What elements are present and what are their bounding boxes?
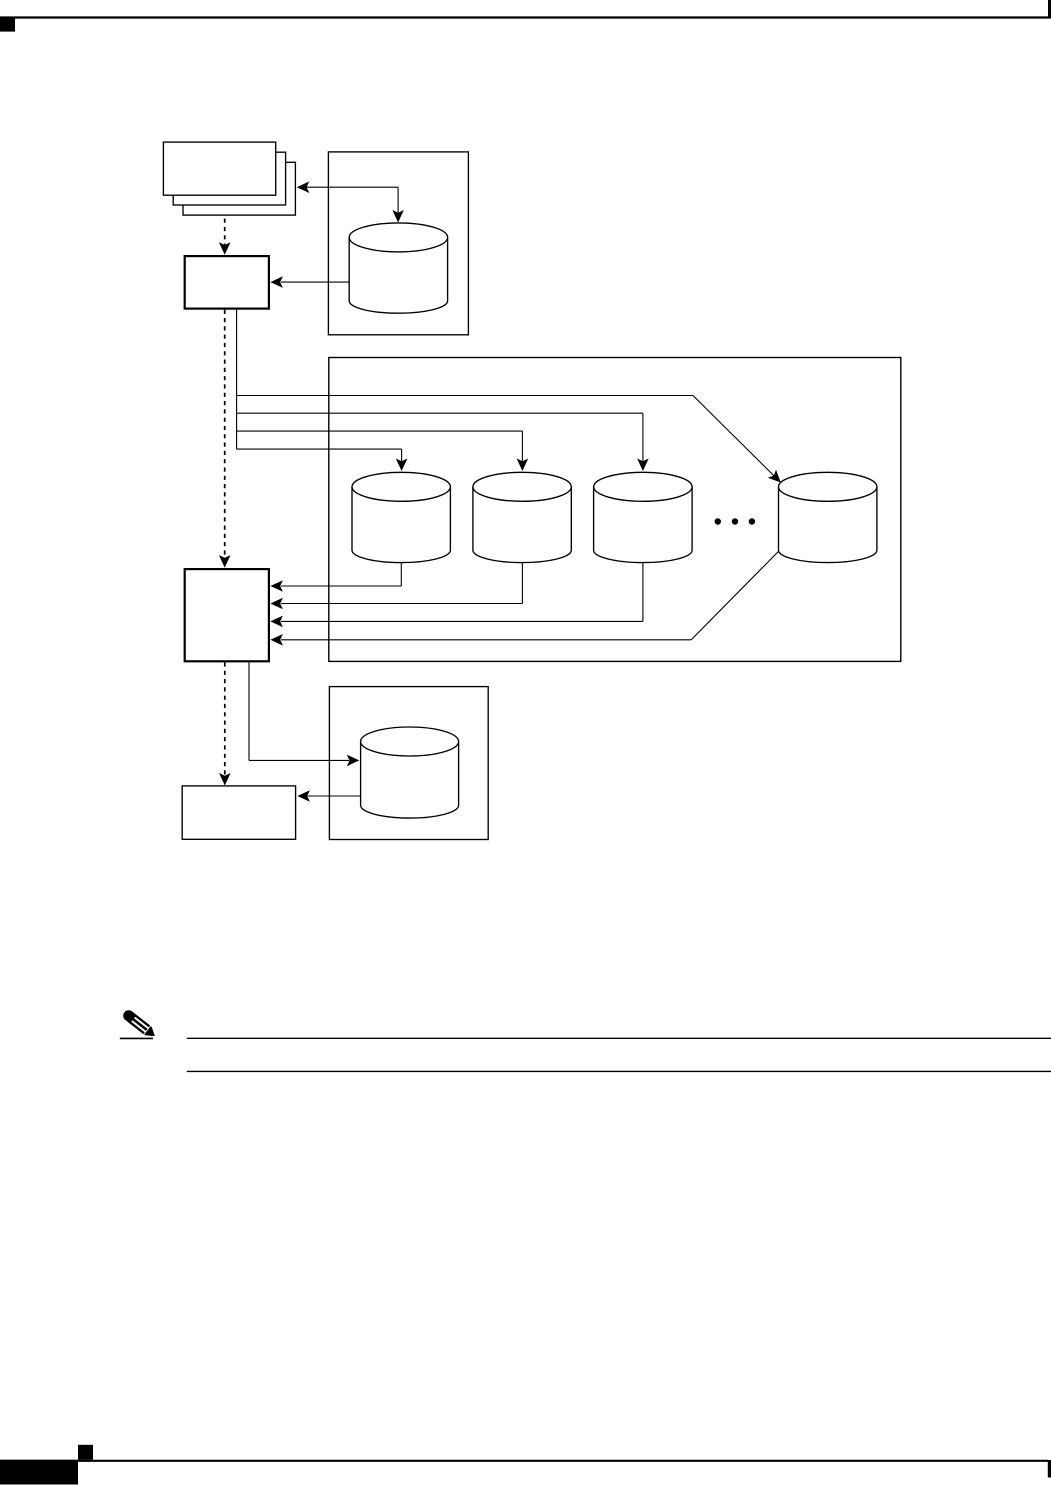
note top rule	[187, 1037, 1051, 1039]
document stack back sheet	[183, 162, 295, 215]
process box 2 (bold)	[185, 569, 269, 661]
wire: bottom cylinder to process box 3	[308, 795, 361, 797]
wire: cylinder 1 to process box 2	[400, 563, 402, 586]
wire: process box 2 down/right into bottom cylinder	[248, 662, 250, 760]
wire: cylinder 3 to process box 2	[642, 563, 644, 622]
arrowhead into top cylinder	[392, 210, 404, 223]
dashed wire: document stack down to process box 1	[224, 219, 226, 246]
wire: top cylinder to process box 1	[281, 281, 349, 283]
wire D: trunk to cylinder 1	[237, 448, 402, 450]
arrowhead into process box 3 right side	[297, 790, 310, 802]
arrowhead into cylinder 3 top	[637, 459, 649, 472]
process box 1 (bold)	[185, 256, 269, 309]
footer page-number block	[0, 1460, 78, 1485]
arrowhead into process box 2 top	[219, 555, 231, 568]
arrowhead into cylinder 1 top	[396, 459, 408, 472]
container box (bottom database group)	[329, 687, 488, 840]
note label underline	[120, 1037, 153, 1039]
header rule	[0, 16, 1048, 18]
header right corner tick	[1048, 0, 1051, 19]
wire: trunk line from process box 1 bottom	[236, 310, 238, 449]
arrowhead into process box 2 (from cylinder 4)	[270, 634, 283, 646]
wire: cylinder 2 to process box 2	[521, 563, 523, 604]
database cylinder 4	[779, 487, 877, 563]
database cylinder 1	[352, 487, 450, 563]
arrowhead into cylinder 4 top	[768, 470, 781, 483]
arrowhead into process box 2 (from cylinder 2)	[270, 598, 283, 610]
arrowhead into process box 1 top	[219, 242, 231, 255]
document stack front sheet	[163, 142, 275, 195]
arrowhead into cylinder 2 top	[517, 459, 529, 472]
wire C: trunk to cylinder 2	[237, 430, 523, 432]
footer small black square	[78, 1445, 93, 1460]
dashed wire: process box 2 down to process box 3	[224, 662, 226, 776]
container box (top database group)	[328, 152, 468, 335]
arrowhead into process box 2 (from cylinder 3)	[270, 616, 283, 628]
document stack middle sheet	[173, 152, 285, 205]
arrowhead into process box 2 (from cylinder 1)	[270, 580, 283, 592]
arrowhead into bottom cylinder left side	[347, 755, 360, 767]
container box (middle database group)	[329, 358, 901, 662]
footer rule	[0, 1460, 1048, 1462]
ellipsis dots between cylinder 3 and 4	[715, 518, 756, 524]
database cylinder (top)	[349, 237, 447, 313]
database cylinder 3	[594, 487, 693, 563]
wire: elbow connector from top cylinder up/left to document stack	[307, 186, 399, 188]
note bottom rule	[187, 1070, 1051, 1072]
arrowhead into process box 1 right side	[270, 276, 283, 288]
note pencil icon	[121, 1008, 157, 1040]
wire B: trunk to cylinder 3	[237, 412, 643, 414]
process box 3	[182, 786, 295, 839]
header left black square	[0, 17, 15, 31]
footer right corner tick	[1048, 1460, 1051, 1478]
database cylinder 2	[473, 487, 571, 563]
database cylinder (bottom)	[361, 742, 459, 819]
wire A: trunk to cylinder 4 (diagonal)	[237, 395, 693, 397]
arrowhead into document stack	[297, 181, 310, 193]
dashed wire: process box 1 down to process box 2	[224, 310, 226, 559]
arrowhead into process box 3 top	[219, 773, 231, 786]
wire: cylinder 4 to process box 2 (diagonal)	[691, 552, 778, 640]
